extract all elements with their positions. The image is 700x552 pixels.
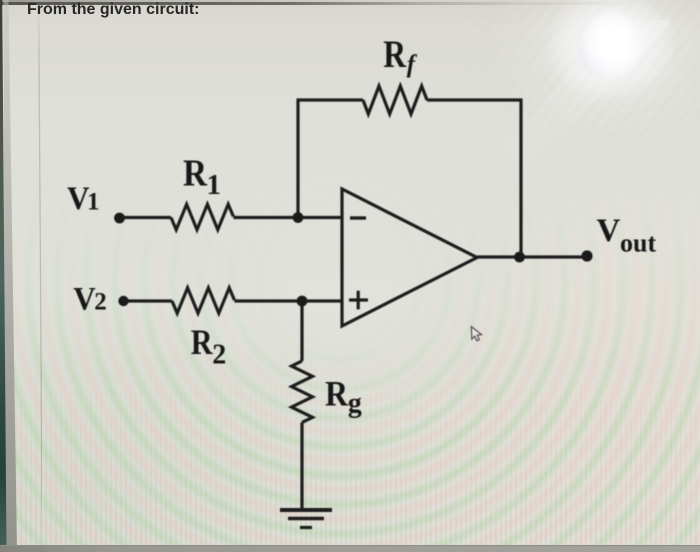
svg-text:1: 1 — [87, 188, 100, 215]
svg-text:g: g — [348, 388, 362, 419]
node A: inverting input / feedback junction — [293, 212, 304, 223]
svg-text:V: V — [73, 281, 96, 317]
svg-text:R: R — [183, 153, 207, 195]
op-amp U1 — [342, 189, 477, 326]
svg-text:out: out — [620, 229, 656, 258]
wire: feedback left vertical — [296, 100, 299, 218]
label Rg — [325, 374, 362, 419]
resistor Rg — [292, 361, 313, 422]
node V2 terminal dot — [118, 296, 128, 306]
wire: Rg top vertical — [300, 301, 303, 361]
svg-text:2: 2 — [94, 289, 107, 316]
svg-text:f: f — [407, 51, 418, 78]
node Vout terminal dot — [581, 250, 592, 261]
wire: feedback right vertical down to output — [519, 99, 522, 258]
svg-text:1: 1 — [207, 169, 222, 201]
resistor Rf — [363, 86, 427, 114]
wire: op-amp output — [477, 255, 587, 258]
svg-text:R: R — [383, 33, 406, 76]
svg-text:2: 2 — [212, 340, 226, 371]
resistor R1 — [171, 204, 233, 229]
wire: V1 input lead — [120, 216, 171, 219]
label R1 — [183, 153, 221, 202]
op-amp minus sign — [350, 216, 366, 219]
node C: output / feedback junction — [514, 252, 525, 263]
label V1 — [67, 181, 100, 217]
label Rf — [383, 33, 418, 78]
svg-text:R: R — [325, 374, 349, 414]
wire: R1 to op-amp inverting input — [233, 216, 342, 219]
label Vout — [597, 213, 657, 258]
wire: Rg to ground — [300, 423, 303, 511]
wire: V2 input lead — [124, 299, 172, 302]
label V2 — [73, 281, 106, 317]
wire: feedback top left segment — [297, 98, 364, 101]
mouse cursor — [471, 327, 481, 341]
wire: R2 to op-amp non-inverting input — [234, 299, 342, 302]
op-amp plus sign — [349, 291, 368, 310]
label R2 — [191, 322, 227, 371]
node B: non-inverting input / Rg junction — [297, 296, 308, 307]
svg-text:V: V — [597, 213, 621, 249]
wire: feedback top right segment — [427, 98, 523, 101]
svg-text:R: R — [191, 322, 214, 362]
ground — [280, 510, 332, 528]
resistor R2 — [172, 288, 234, 313]
node V1 terminal dot — [114, 213, 125, 224]
